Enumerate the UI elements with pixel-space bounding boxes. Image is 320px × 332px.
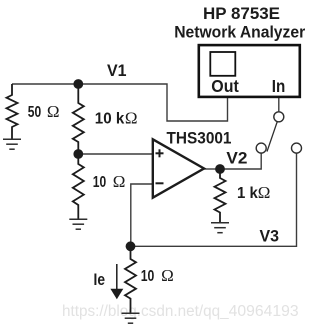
wire op-amp inverting input to bottom node — [131, 184, 154, 246]
current arrow Ie — [116, 264, 118, 290]
switch terminal right (V3) — [292, 143, 302, 153]
resistor 1 kohm (output load) — [215, 169, 226, 223]
analyzer display square — [210, 52, 235, 76]
svg-text:Network Analyzer: Network Analyzer — [174, 22, 305, 41]
ground (10 ohm mid) — [69, 219, 87, 229]
ground (50 ohm) — [3, 139, 21, 149]
resistor 50 ohm — [7, 84, 18, 139]
svg-text:THS3001: THS3001 — [167, 129, 232, 148]
svg-text:40964193: 40964193 — [229, 303, 299, 320]
svg-text:Ie: Ie — [94, 270, 106, 289]
svg-text:HP 8753E: HP 8753E — [203, 4, 280, 23]
junction node V2 — [215, 164, 225, 174]
switch terminal In — [274, 112, 284, 122]
svg-text:In: In — [272, 76, 286, 96]
wire op-amp output to node V2 — [204, 168, 220, 170]
ground (bottom 10 ohm) — [122, 313, 140, 323]
wire In port lead — [278, 97, 280, 111]
svg-text:Ω: Ω — [125, 108, 138, 127]
wire op-amp noninverting input — [78, 153, 153, 155]
svg-text:V1: V1 — [107, 61, 127, 80]
wire V1 net (top horizontal + jog to Out port) — [12, 84, 228, 121]
op-amp plus pin mark — [156, 149, 164, 157]
svg-text:Ω: Ω — [258, 183, 271, 202]
svg-text:Ω: Ω — [161, 266, 174, 285]
network analyzer box — [199, 45, 300, 97]
svg-text:V3: V3 — [260, 227, 280, 246]
svg-text:10 k: 10 k — [95, 110, 125, 127]
resistor 10 ohm (bottom, emitter) — [125, 246, 136, 313]
op-amp minus pin mark — [156, 182, 164, 184]
wire switch left throw to V2 node — [222, 153, 261, 169]
svg-text:Ω: Ω — [47, 102, 60, 121]
resistor 10 ohm (inverting side, to ground) — [73, 154, 84, 219]
junction node V1 — [73, 79, 83, 89]
junction bottom node V3 — [126, 241, 136, 251]
switch blade — [267, 122, 277, 152]
svg-text:Ω: Ω — [113, 172, 126, 191]
svg-text:https://blog.csdn.net/qq_: https://blog.csdn.net/qq_ — [62, 303, 229, 320]
wire V3 net (right vertical + bottom horizontal) — [131, 153, 297, 246]
svg-text:50: 50 — [28, 104, 41, 121]
ground (1 kohm) — [211, 223, 229, 233]
junction noninverting input node — [73, 149, 83, 159]
svg-text:Out: Out — [211, 76, 239, 96]
svg-text:10: 10 — [141, 268, 155, 285]
svg-text:V2: V2 — [226, 148, 247, 167]
resistor 10 kohm — [73, 84, 84, 154]
switch terminal left (V2) — [256, 143, 266, 153]
svg-text:1 k: 1 k — [237, 185, 258, 202]
op-amp THS3001 — [153, 139, 204, 197]
svg-text:10: 10 — [93, 174, 106, 191]
